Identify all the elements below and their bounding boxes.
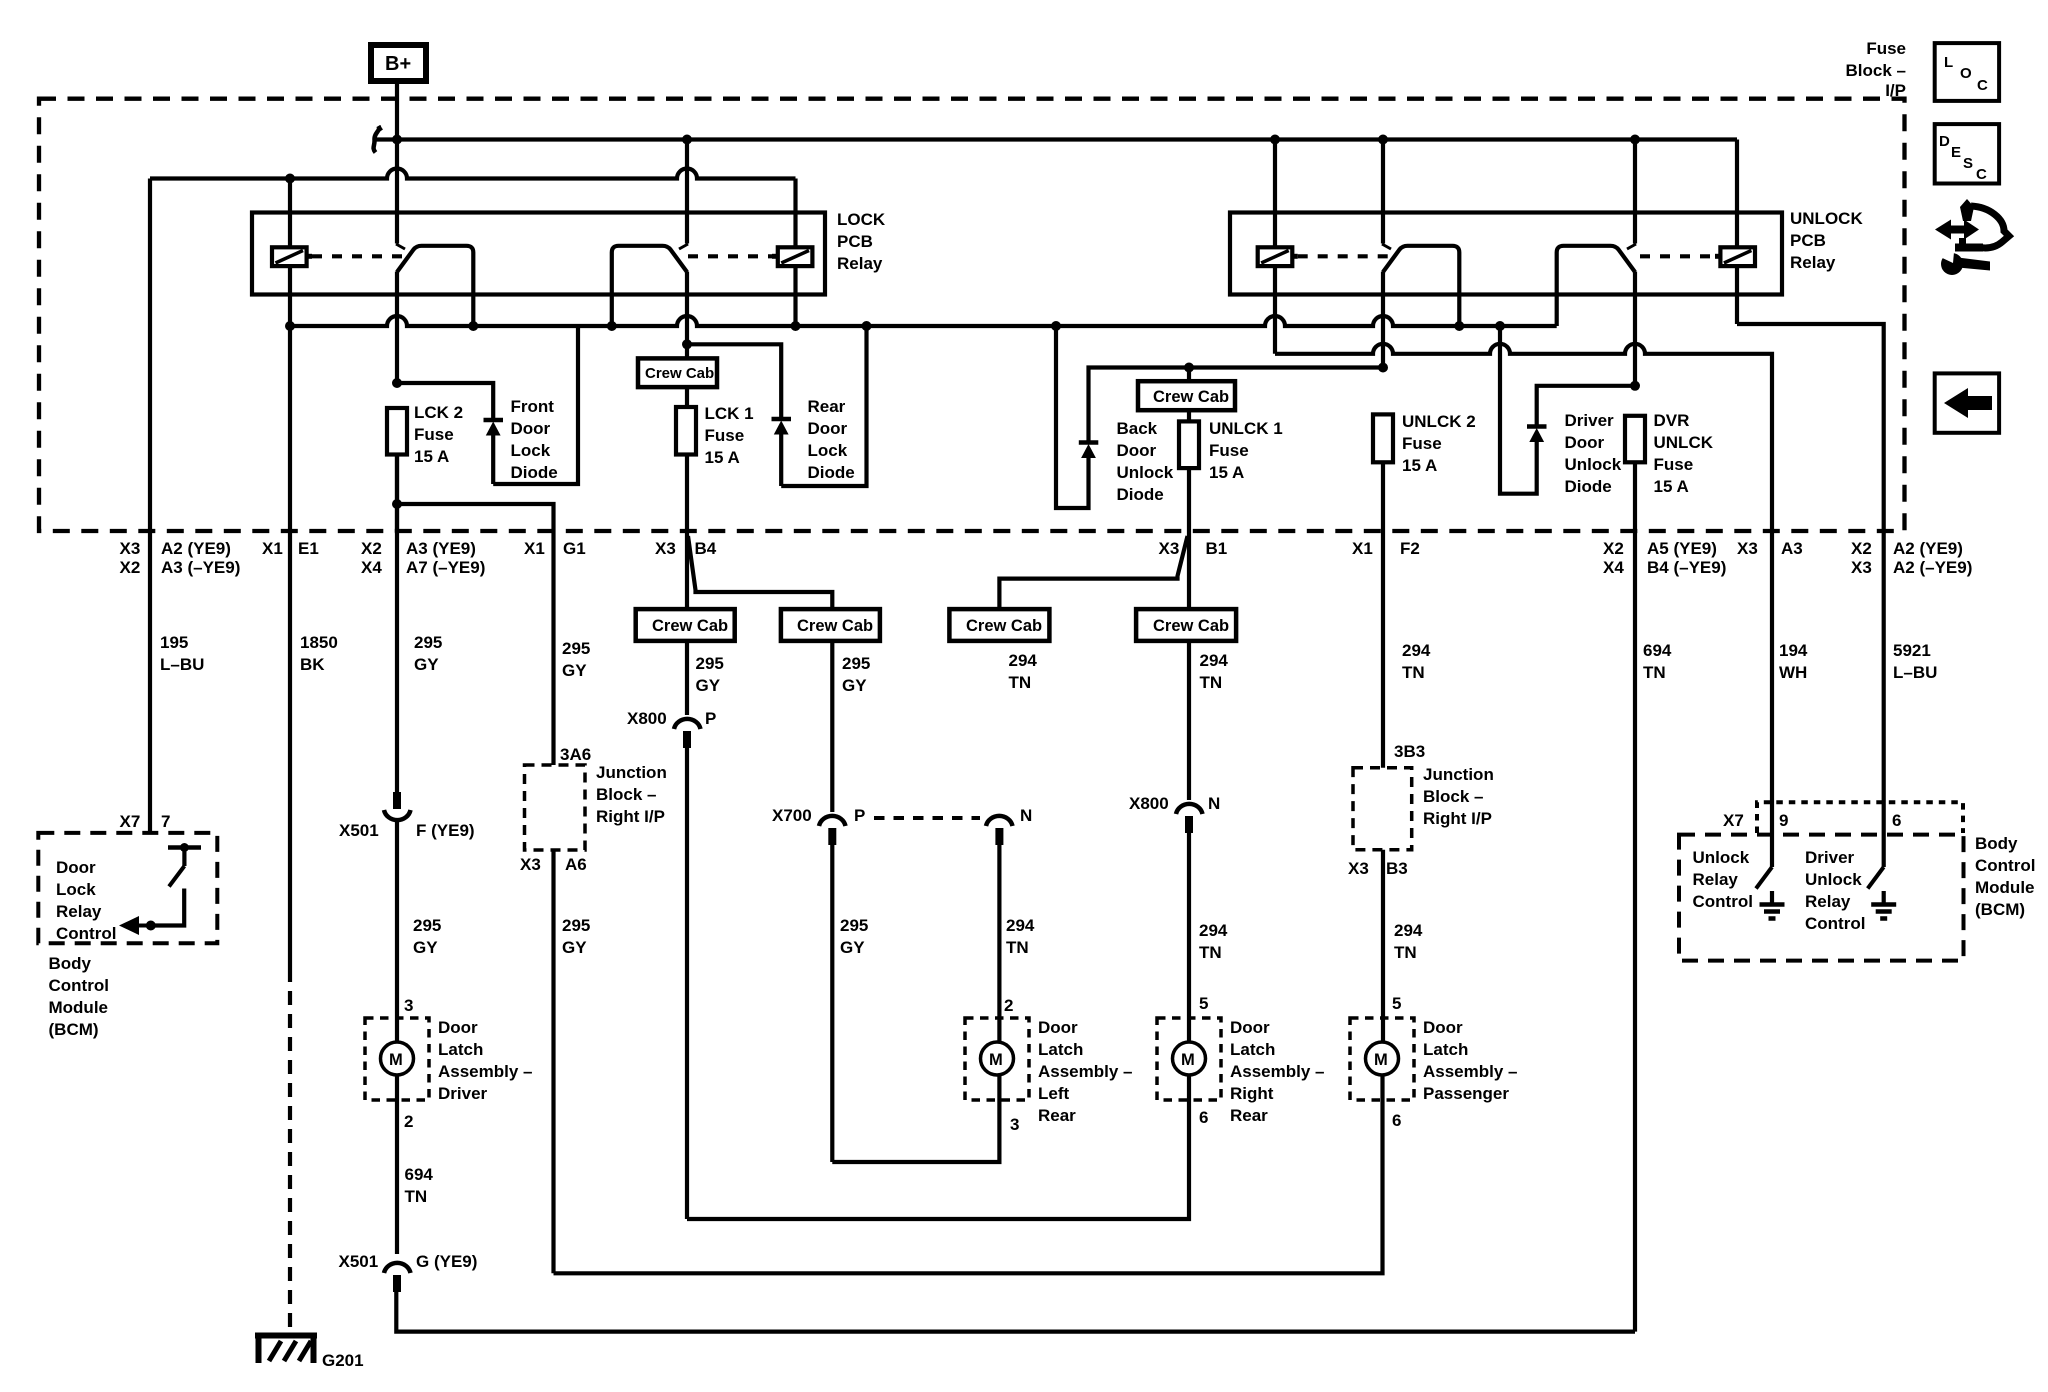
svg-text:Crew Cab: Crew Cab bbox=[645, 365, 714, 382]
relay contact UNLOCK 2: arm and throw (mirrored) bbox=[1557, 246, 1635, 326]
coil-contact dashed link LOCK right bbox=[688, 254, 772, 258]
svg-text:Right I/P: Right I/P bbox=[1423, 809, 1492, 828]
fuse DVR UNLCK bbox=[1625, 416, 1645, 532]
svg-text:Relay: Relay bbox=[1693, 870, 1739, 889]
svg-text:15 A: 15 A bbox=[705, 448, 740, 467]
node: junction B+/lineA bbox=[392, 135, 402, 145]
svg-text:Assembly –: Assembly – bbox=[438, 1062, 533, 1081]
svg-text:A2 (YE9): A2 (YE9) bbox=[1893, 539, 1963, 558]
wire: rear door lock diode branch top bbox=[687, 344, 781, 418]
BCM box left: Door Lock Relay Control bbox=[38, 812, 217, 943]
BCM lock driver switch bbox=[151, 843, 201, 926]
svg-text:295: 295 bbox=[413, 916, 441, 935]
wire: ground bus y=326 with hops at 397,687,1275,1383 bbox=[290, 316, 1557, 326]
svg-text:5921: 5921 bbox=[1893, 641, 1931, 660]
svg-text:5: 5 bbox=[1392, 994, 1401, 1013]
svg-text:I/P: I/P bbox=[1885, 81, 1906, 100]
svg-text:GY: GY bbox=[842, 676, 867, 695]
UNLOCK PCB relay box bbox=[1230, 213, 1782, 295]
label: Junction Block - Right I/P (3B3) bbox=[1423, 765, 1494, 828]
wire: right rear motor bottom U loop bbox=[687, 1075, 1189, 1219]
svg-text:F (YE9): F (YE9) bbox=[416, 821, 475, 840]
svg-text:Rear: Rear bbox=[1230, 1106, 1268, 1125]
wire: B4 slant split to crew cab branch bbox=[688, 536, 832, 609]
svg-text:Relay: Relay bbox=[56, 902, 102, 921]
wire: 195 L-BU BCM lock control to line B bbox=[148, 179, 152, 834]
svg-text:Door: Door bbox=[438, 1018, 478, 1037]
node: LCK2/front diode split bbox=[392, 378, 402, 388]
diode: Back Door Unlock Diode bbox=[1079, 368, 1383, 459]
svg-text:5: 5 bbox=[1199, 994, 1208, 1013]
wire: 5921 L-BU into BCM pin 6 bbox=[1882, 532, 1886, 867]
svg-text:G201: G201 bbox=[322, 1351, 364, 1370]
wire: line A B+ bus y=139.5 bbox=[376, 137, 1737, 141]
svg-text:Latch: Latch bbox=[1038, 1040, 1083, 1059]
svg-text:A5 (YE9): A5 (YE9) bbox=[1647, 539, 1717, 558]
svg-text:UNLCK: UNLCK bbox=[1654, 433, 1714, 452]
relay coil LOCK right (K1b) bbox=[772, 179, 812, 327]
fuse LCK 1 bbox=[676, 407, 696, 532]
svg-text:195: 195 bbox=[160, 633, 188, 652]
svg-text:TN: TN bbox=[405, 1187, 428, 1206]
svg-text:Assembly –: Assembly – bbox=[1230, 1062, 1325, 1081]
svg-text:Diode: Diode bbox=[511, 463, 558, 482]
svg-text:GY: GY bbox=[413, 938, 438, 957]
node: G1 split bbox=[392, 499, 402, 509]
svg-text:PCB: PCB bbox=[837, 232, 873, 251]
svg-text:X501: X501 bbox=[339, 821, 379, 840]
node: bus/coil1L bbox=[285, 321, 295, 331]
label: UNLCK 1 Fuse 15 A bbox=[1209, 419, 1283, 482]
Crew Cab box lower 4 (X800 N wire) bbox=[1136, 609, 1236, 641]
svg-text:295: 295 bbox=[842, 654, 870, 673]
node: bus/back diode drop bbox=[1051, 321, 1061, 331]
svg-text:Crew Cab: Crew Cab bbox=[797, 617, 873, 635]
svg-text:TN: TN bbox=[1009, 673, 1032, 692]
svg-text:X3: X3 bbox=[1851, 558, 1872, 577]
label: DVR UNLCK Fuse 15 A bbox=[1654, 411, 1714, 496]
label: Body Control Module (BCM) right bbox=[1975, 834, 2035, 919]
connector X800 N bbox=[1129, 794, 1220, 833]
svg-text:Door: Door bbox=[1117, 441, 1157, 460]
svg-text:Driver: Driver bbox=[1565, 411, 1615, 430]
fuse block I/P dashed border bbox=[39, 99, 1905, 531]
label: Rear Door Lock Diode bbox=[808, 397, 855, 482]
wire: LOCK contact1 common down bbox=[395, 272, 399, 384]
label: Door Latch Assembly Passenger bbox=[1423, 1018, 1518, 1103]
svg-text:N: N bbox=[1208, 794, 1220, 813]
svg-text:Junction: Junction bbox=[596, 763, 667, 782]
svg-text:Latch: Latch bbox=[1423, 1040, 1468, 1059]
relay coil LOCK left (K1a) bbox=[272, 179, 312, 327]
svg-text:(BCM): (BCM) bbox=[49, 1020, 99, 1039]
svg-text:Control: Control bbox=[56, 924, 116, 943]
svg-text:S: S bbox=[1963, 155, 1973, 172]
connector X501 F (YE9) bbox=[339, 792, 475, 840]
svg-text:X700: X700 bbox=[772, 806, 812, 825]
coil-contact dashed link LOCK left bbox=[312, 254, 402, 258]
svg-text:Back: Back bbox=[1117, 419, 1158, 438]
svg-text:UNLCK 2: UNLCK 2 bbox=[1402, 412, 1476, 431]
wire: LOCK contact2 common down bbox=[685, 272, 689, 345]
svg-text:Crew Cab: Crew Cab bbox=[966, 617, 1042, 635]
svg-text:Crew Cab: Crew Cab bbox=[1153, 388, 1229, 406]
label 694 TN driver return bbox=[405, 1165, 434, 1206]
svg-text:15 A: 15 A bbox=[1209, 463, 1244, 482]
BCM driver unlock relay switch (pin 6) bbox=[1868, 867, 1884, 903]
motor: Door Latch Assembly Left Rear bbox=[965, 996, 1029, 1134]
icon: LOC box bbox=[1935, 43, 1999, 101]
svg-text:X3: X3 bbox=[655, 539, 676, 558]
svg-text:2: 2 bbox=[404, 1112, 413, 1131]
icon: double arrow with connector outline bbox=[1935, 199, 2009, 252]
junction block 3A6 Right I/P bbox=[520, 745, 591, 874]
svg-text:TN: TN bbox=[1394, 943, 1417, 962]
label: LCK 1 Fuse 15 A bbox=[705, 404, 754, 467]
svg-text:B4: B4 bbox=[695, 539, 717, 558]
wire: left rear motor bottom U loop bbox=[832, 1075, 999, 1162]
svg-text:Assembly –: Assembly – bbox=[1423, 1062, 1518, 1081]
label: Junction Block - Right I/P bbox=[596, 763, 667, 826]
wire: branch to G1 terminal bbox=[397, 504, 554, 765]
svg-text:G1: G1 bbox=[563, 539, 586, 558]
svg-text:3: 3 bbox=[1010, 1115, 1019, 1134]
relay contact LOCK right: post from line A bbox=[685, 140, 689, 244]
svg-text:UNLCK 1: UNLCK 1 bbox=[1209, 419, 1283, 438]
svg-text:F2: F2 bbox=[1400, 539, 1420, 558]
Crew Cab box lower 3 (X700 N wire) bbox=[949, 609, 1049, 641]
svg-text:GY: GY bbox=[696, 676, 721, 695]
svg-text:Unlock: Unlock bbox=[1117, 463, 1174, 482]
arrow: door lock relay control output bbox=[119, 916, 151, 935]
ground symbol BCM pin 6 bbox=[1871, 905, 1896, 919]
svg-text:Front: Front bbox=[511, 397, 555, 416]
svg-text:Door: Door bbox=[1423, 1018, 1463, 1037]
svg-text:LCK 2: LCK 2 bbox=[414, 403, 463, 422]
svg-text:GY: GY bbox=[562, 661, 587, 680]
label: Door Latch Assembly Left Rear bbox=[1038, 1018, 1133, 1125]
svg-text:3: 3 bbox=[404, 996, 413, 1015]
svg-text:Fuse: Fuse bbox=[414, 425, 454, 444]
svg-text:X1: X1 bbox=[262, 539, 283, 558]
svg-text:694: 694 bbox=[405, 1165, 434, 1184]
svg-text:LCK 1: LCK 1 bbox=[705, 404, 754, 423]
label: Unlock Relay Control bbox=[1693, 848, 1753, 911]
svg-text:Fuse: Fuse bbox=[705, 426, 745, 445]
B+ battery feed box bbox=[371, 45, 426, 81]
twisted pair dashed tie X700 P-N bbox=[874, 816, 980, 820]
svg-text:P: P bbox=[705, 709, 716, 728]
wire: X700 P down to left rear loop bbox=[830, 845, 834, 1162]
svg-text:TN: TN bbox=[1402, 663, 1425, 682]
svg-text:N: N bbox=[1020, 806, 1032, 825]
svg-text:Unlock: Unlock bbox=[1693, 848, 1750, 867]
svg-text:Lock: Lock bbox=[808, 441, 848, 460]
motor: Door Latch Assembly Passenger bbox=[1350, 994, 1414, 1130]
svg-text:Door: Door bbox=[511, 419, 551, 438]
terminal labels row at fuse block exit bbox=[120, 539, 1973, 577]
wire: 295 GY from 3A6 down bbox=[551, 850, 555, 1273]
svg-text:E: E bbox=[1951, 144, 1961, 161]
svg-text:Left: Left bbox=[1038, 1084, 1070, 1103]
svg-text:A2 (YE9): A2 (YE9) bbox=[161, 539, 231, 558]
svg-text:A3 (–YE9): A3 (–YE9) bbox=[161, 558, 240, 577]
svg-text:194: 194 bbox=[1779, 641, 1808, 660]
svg-text:Fuse: Fuse bbox=[1209, 441, 1249, 460]
node: bus/rear diode return bbox=[862, 321, 872, 331]
X7 connector dotted strip bbox=[1723, 802, 1963, 833]
svg-text:Relay: Relay bbox=[1805, 892, 1851, 911]
svg-text:Passenger: Passenger bbox=[1423, 1084, 1509, 1103]
svg-text:Lock: Lock bbox=[56, 880, 96, 899]
svg-text:UNLOCK: UNLOCK bbox=[1790, 209, 1863, 228]
wire: 295 GY below crew cab 2 bbox=[830, 641, 834, 812]
svg-text:B3: B3 bbox=[1386, 859, 1408, 878]
wire: X800 P down to right rear loop bbox=[685, 748, 689, 1219]
svg-text:295: 295 bbox=[562, 916, 590, 935]
svg-text:A2 (–YE9): A2 (–YE9) bbox=[1893, 558, 1972, 577]
node: bus/throw1U bbox=[1454, 321, 1464, 331]
svg-text:A3: A3 bbox=[1781, 539, 1803, 558]
fuse UNLCK 2 bbox=[1373, 414, 1393, 532]
wire: front door lock diode branch top bbox=[397, 383, 493, 419]
coil-contact dashed link UNLOCK right bbox=[1640, 254, 1715, 258]
svg-text:PCB: PCB bbox=[1790, 231, 1826, 250]
relay coil UNLOCK left (K2a) bbox=[1258, 140, 1298, 354]
svg-text:1850: 1850 bbox=[300, 633, 338, 652]
wire: back door unlock diode drop from bus bbox=[1056, 326, 1089, 508]
junction block 3B3 Right I/P bbox=[1348, 742, 1425, 878]
svg-text:M: M bbox=[1374, 1051, 1388, 1069]
svg-text:M: M bbox=[389, 1051, 403, 1069]
svg-text:295: 295 bbox=[414, 633, 442, 652]
svg-text:Control: Control bbox=[1805, 914, 1865, 933]
svg-text:O: O bbox=[1960, 65, 1972, 82]
icon: back arrow box bbox=[1935, 373, 1999, 432]
icon: wrench bbox=[1936, 246, 1990, 275]
relay contact UNLOCK 1: arm and throw bbox=[1383, 246, 1459, 326]
svg-text:6: 6 bbox=[1892, 811, 1901, 830]
svg-text:X1: X1 bbox=[1352, 539, 1373, 558]
svg-text:X2: X2 bbox=[361, 539, 382, 558]
svg-text:694: 694 bbox=[1643, 641, 1672, 660]
svg-text:Lock: Lock bbox=[511, 441, 551, 460]
fuse LCK 2 bbox=[387, 408, 407, 532]
svg-text:M: M bbox=[989, 1051, 1003, 1069]
svg-text:A3 (YE9): A3 (YE9) bbox=[406, 539, 476, 558]
wire: 294 TN below crew cab 4 bbox=[1187, 641, 1191, 800]
node: unlock common2 to diode line bbox=[1630, 381, 1640, 391]
wire: 694 TN driver unlock return bbox=[1633, 532, 1637, 1332]
svg-text:295: 295 bbox=[562, 639, 590, 658]
splice hook symbol at B+ junction bbox=[374, 126, 379, 153]
svg-text:Latch: Latch bbox=[1230, 1040, 1275, 1059]
wire: 295 GY to driver latch bbox=[395, 821, 399, 1042]
LOCK PCB relay box bbox=[252, 213, 825, 295]
svg-text:X800: X800 bbox=[627, 709, 667, 728]
svg-text:L–BU: L–BU bbox=[1893, 663, 1937, 682]
svg-text:X4: X4 bbox=[1603, 558, 1624, 577]
contact tick UNLOCK1 post bbox=[1382, 244, 1391, 249]
svg-text:X7: X7 bbox=[1723, 811, 1744, 830]
svg-text:294: 294 bbox=[1199, 921, 1228, 940]
svg-text:BK: BK bbox=[300, 655, 325, 674]
svg-text:Rear: Rear bbox=[1038, 1106, 1076, 1125]
svg-text:L: L bbox=[1944, 54, 1953, 71]
node: lineA to LCK1 post bbox=[682, 135, 692, 145]
svg-text:M: M bbox=[1181, 1051, 1195, 1069]
svg-text:295: 295 bbox=[840, 916, 868, 935]
svg-text:Door: Door bbox=[808, 419, 848, 438]
svg-text:Body: Body bbox=[49, 954, 92, 973]
label: LCK 2 Fuse 15 A bbox=[414, 403, 463, 466]
contact tick LOCK right post bbox=[679, 244, 688, 249]
wire: driver motor to X501 G bbox=[395, 1075, 399, 1254]
svg-text:X501: X501 bbox=[339, 1252, 379, 1271]
svg-text:TN: TN bbox=[1200, 673, 1223, 692]
svg-text:X800: X800 bbox=[1129, 794, 1169, 813]
label: Driver Door Unlock Diode bbox=[1565, 411, 1622, 496]
svg-text:Diode: Diode bbox=[808, 463, 855, 482]
svg-text:Relay: Relay bbox=[1790, 253, 1836, 272]
connector X700 P bbox=[772, 806, 865, 845]
svg-text:3B3: 3B3 bbox=[1394, 742, 1425, 761]
svg-text:TN: TN bbox=[1643, 663, 1666, 682]
wire: line B lock relay coil feed y=178.5 with hops at 397,687 bbox=[150, 169, 796, 179]
svg-text:E1: E1 bbox=[298, 539, 319, 558]
svg-text:GY: GY bbox=[562, 938, 587, 957]
svg-text:Control: Control bbox=[1975, 856, 2035, 875]
svg-text:15 A: 15 A bbox=[1654, 477, 1689, 496]
svg-text:294: 294 bbox=[1402, 641, 1431, 660]
icon: DESC box bbox=[1935, 124, 1999, 183]
wire: driver door unlock diode drop from bus bbox=[1500, 326, 1537, 494]
svg-text:B1: B1 bbox=[1206, 539, 1228, 558]
svg-text:3A6: 3A6 bbox=[560, 745, 591, 764]
contact tick UNLOCK2 post bbox=[1627, 244, 1636, 249]
svg-text:TN: TN bbox=[1199, 943, 1222, 962]
svg-text:X3: X3 bbox=[1737, 539, 1758, 558]
svg-text:6: 6 bbox=[1392, 1111, 1401, 1130]
svg-text:9: 9 bbox=[1779, 811, 1788, 830]
node: lineA to UNLCK contact1 post bbox=[1378, 135, 1388, 145]
svg-text:Block –: Block – bbox=[596, 785, 656, 804]
svg-text:LOCK: LOCK bbox=[837, 210, 886, 229]
wire: rear diode return to bus bbox=[781, 326, 866, 486]
svg-text:Module: Module bbox=[1975, 878, 2035, 897]
svg-text:DVR: DVR bbox=[1654, 411, 1690, 430]
svg-text:7: 7 bbox=[161, 812, 170, 831]
svg-text:X2: X2 bbox=[120, 558, 141, 577]
svg-text:Diode: Diode bbox=[1117, 485, 1164, 504]
wire: UNLOCK contact1 common down bbox=[1381, 272, 1385, 368]
svg-text:P: P bbox=[854, 806, 865, 825]
BCM box right: unlock controls bbox=[1679, 835, 1964, 961]
svg-text:X1: X1 bbox=[524, 539, 545, 558]
connector X800 P bbox=[627, 709, 716, 748]
svg-text:Junction: Junction bbox=[1423, 765, 1494, 784]
wire: X501 G to 694 TN bottom run bbox=[396, 1292, 1635, 1332]
svg-text:Crew Cab: Crew Cab bbox=[1153, 617, 1229, 635]
svg-text:X3: X3 bbox=[120, 539, 141, 558]
svg-text:A7 (–YE9): A7 (–YE9) bbox=[406, 558, 485, 577]
svg-text:294: 294 bbox=[1394, 921, 1423, 940]
wire: front diode return to bus bbox=[493, 326, 578, 484]
wire: passenger motor bottom to 1273 run bbox=[554, 1075, 1383, 1273]
node: UNLCK1 feed tap bbox=[1184, 363, 1194, 373]
svg-text:294: 294 bbox=[1009, 651, 1038, 670]
svg-text:X4: X4 bbox=[361, 558, 382, 577]
Crew Cab box lower 1 (on B4 wire) bbox=[636, 609, 735, 641]
wire labels below fuse block bbox=[160, 633, 1937, 695]
wire: 194 WH into BCM pin 9 bbox=[1770, 532, 1774, 867]
wire: UNLOCK coil1 return y=353.8 with hops at 1383,1500,1635 bbox=[1275, 344, 1772, 532]
label: Body Control Module (BCM) left bbox=[49, 954, 109, 1039]
svg-text:15 A: 15 A bbox=[1402, 456, 1437, 475]
motor: Door Latch Assembly Right Rear bbox=[1157, 994, 1221, 1127]
svg-text:GY: GY bbox=[840, 938, 865, 957]
wire: B1 main drop bbox=[1187, 532, 1191, 609]
label: Door Latch Assembly Right Rear bbox=[1230, 1018, 1325, 1125]
Crew Cab box lower 2 (X700 P wire) bbox=[781, 609, 880, 641]
label: Back Door Unlock Diode bbox=[1117, 419, 1174, 504]
svg-text:X3: X3 bbox=[1348, 859, 1369, 878]
svg-text:C: C bbox=[1976, 166, 1987, 183]
wire: X800 N down to right rear motor bbox=[1187, 833, 1191, 1042]
relay coil UNLOCK right (K2b) bbox=[1715, 140, 1755, 325]
node: lineA to UNLCK contact2 post bbox=[1630, 135, 1640, 145]
svg-text:Block –: Block – bbox=[1846, 61, 1906, 80]
svg-text:6: 6 bbox=[1199, 1108, 1208, 1127]
node: unlock common1 to feed line bbox=[1378, 363, 1388, 373]
node: bus/throw2L bbox=[607, 321, 617, 331]
svg-text:Module: Module bbox=[49, 998, 109, 1017]
wire: 1850 BK ground lead (solid part) bbox=[288, 326, 292, 968]
node: bus/throw1L bbox=[468, 321, 478, 331]
svg-text:Diode: Diode bbox=[1565, 477, 1612, 496]
wire: 295 GY driver latch feed with G1 split bbox=[395, 455, 399, 793]
Crew Cab box above LCK1 fuse bbox=[638, 344, 717, 407]
svg-text:Driver: Driver bbox=[1805, 848, 1855, 867]
ground G201 bbox=[255, 1333, 364, 1370]
relay contact UNLOCK 2: post bbox=[1633, 140, 1637, 244]
svg-text:X2: X2 bbox=[1851, 539, 1872, 558]
wire: 295 GY below crew cab 1 bbox=[685, 641, 689, 715]
svg-text:15 A: 15 A bbox=[414, 447, 449, 466]
svg-text:2: 2 bbox=[1004, 996, 1013, 1015]
svg-text:294: 294 bbox=[1200, 651, 1229, 670]
svg-text:A6: A6 bbox=[565, 855, 587, 874]
label: LOCK PCB Relay bbox=[837, 210, 886, 273]
label: Fuse Block - I/P bbox=[1846, 39, 1906, 100]
svg-text:295: 295 bbox=[696, 654, 724, 673]
svg-text:WH: WH bbox=[1779, 663, 1807, 682]
svg-text:X2: X2 bbox=[1603, 539, 1624, 558]
svg-text:Driver: Driver bbox=[438, 1084, 488, 1103]
connector X700 N bbox=[986, 806, 1032, 845]
diode: Rear Door Lock Diode bbox=[772, 419, 792, 486]
label: UNLCK 2 Fuse 15 A bbox=[1402, 412, 1476, 475]
svg-text:294: 294 bbox=[1006, 916, 1035, 935]
wire: X700 N down to left rear motor bbox=[997, 845, 1001, 1042]
wire: B4 main drop bbox=[685, 532, 689, 609]
svg-text:Crew Cab: Crew Cab bbox=[652, 617, 728, 635]
node: BCM lock control junction bbox=[146, 921, 156, 931]
wire: B1 slant split to crew cab branch bbox=[999, 536, 1187, 609]
node: lineA to UNLOCK coil1 bbox=[1270, 135, 1280, 145]
svg-text:Unlock: Unlock bbox=[1565, 455, 1622, 474]
svg-text:Fuse: Fuse bbox=[1654, 455, 1694, 474]
